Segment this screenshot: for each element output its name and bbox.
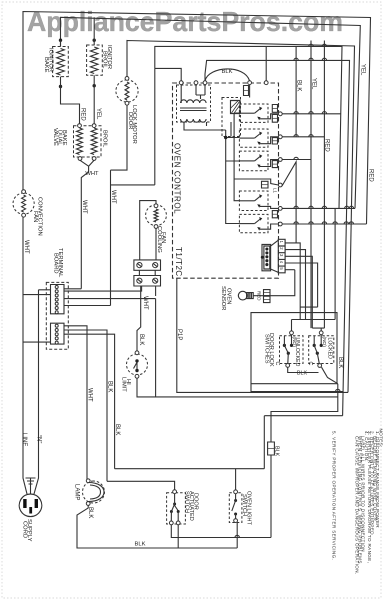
door actuated switch blades <box>171 494 178 522</box>
hop T6 e <box>344 222 348 224</box>
svg-text:LOCKED: LOCKED <box>327 338 333 360</box>
hop T5 c <box>322 206 326 208</box>
convection fan winding <box>22 195 26 212</box>
wire BLK stub right <box>295 46 297 136</box>
TB2 screw left <box>137 278 142 283</box>
wire door lock bottoms <box>288 367 338 384</box>
wire L1 left run <box>23 12 371 461</box>
wire broil ignitor top wire <box>93 17 95 45</box>
tag wire tag 271 <box>268 442 275 455</box>
lamp terminal top <box>86 479 90 483</box>
svg-text:AppliancePartsPros.com: AppliancePartsPros.com <box>27 6 343 37</box>
wire transformer BLK feed <box>205 60 350 415</box>
door actuated switch contact b <box>177 510 180 513</box>
wire oven light drop <box>235 469 237 490</box>
resistor bake ignitor element <box>57 49 65 76</box>
svg-text:T1/T2C: T1/T2C <box>174 247 183 277</box>
door actuated switch bottom terminal right <box>176 521 180 525</box>
door lock switch left box <box>280 336 304 364</box>
svg-text:BLK: BLK <box>222 69 233 75</box>
door lock switch left contact b <box>290 344 293 347</box>
oven light switch pole <box>234 499 237 502</box>
resistor broil ignitor box <box>87 45 103 75</box>
relay switch K4 blade arrowhead <box>259 154 262 158</box>
door actuated switch bottom terminal left <box>169 521 173 525</box>
door lock switch left top wire <box>291 320 293 346</box>
terminal board outline <box>46 282 68 349</box>
wire T6 run <box>282 223 366 225</box>
TB1 screw right <box>153 263 158 268</box>
tag L1tag hatch <box>262 184 269 186</box>
relay K1 coil rect <box>231 101 241 114</box>
TB2 screw slots <box>138 279 158 282</box>
connector P1 pin dot 2 <box>265 251 268 254</box>
terminal block TB2 <box>134 276 161 287</box>
relay switch K5 contact arrowhead <box>257 204 260 208</box>
terminal board lower pin 4 <box>55 337 58 340</box>
svg-text:C: C <box>274 362 280 366</box>
svg-text:YEL: YEL <box>360 64 366 76</box>
relay switch K2 out wire <box>260 114 279 119</box>
door lock motor circle <box>116 80 138 102</box>
box right terminal 6 <box>278 222 282 226</box>
door lock motor winding <box>125 82 129 100</box>
svg-text:RED: RED <box>368 169 374 182</box>
hop T2 b <box>309 135 313 137</box>
wire lamp bottom <box>77 505 237 548</box>
wire L1 into lower block <box>23 341 51 343</box>
node broil ignitor top junction <box>93 39 96 42</box>
hi limit circle <box>127 354 148 375</box>
terminal board lower pin 5 <box>55 341 58 344</box>
wire bake ignitor to valve <box>61 77 80 126</box>
tag wire tag 271 hatch <box>268 448 275 450</box>
relay switch K5 out wire <box>260 206 279 208</box>
terminal board lower pin 1 <box>55 324 58 327</box>
hi limit blade <box>134 362 138 369</box>
lamp circle <box>83 481 105 503</box>
transformer terminal 1 <box>179 81 183 85</box>
wire hi limit bottom <box>137 378 338 397</box>
cooling fan terminal bottom <box>154 225 158 229</box>
terminal board upper pin 5 <box>55 302 58 305</box>
door lock switch left top terminal <box>290 331 294 335</box>
ground stem <box>30 478 32 494</box>
valve terminal top right <box>92 124 96 128</box>
wire T1 run <box>282 113 341 115</box>
valve box <box>74 126 102 157</box>
door lock switches outer box <box>251 313 337 384</box>
relay switch K4 contact arrowhead <box>257 164 260 168</box>
wire lower pin to lamp <box>64 326 87 480</box>
hop T5 e <box>349 206 353 208</box>
wire pin3 nest <box>285 256 312 328</box>
tag CB <box>272 138 277 144</box>
wire T1C feed <box>155 46 342 208</box>
terminal board lower pin 3 <box>55 333 58 336</box>
svg-text:5. VERIFY PROPER OPERATION AFT: 5. VERIFY PROPER OPERATION AFTER SERVICI… <box>332 431 337 560</box>
wire T2 vertical RED <box>323 41 325 329</box>
wire T4 L1 diag <box>282 162 296 243</box>
door actuated switch pole <box>173 503 176 506</box>
wire pin5 nest <box>285 269 295 271</box>
transformer T1 box <box>177 85 211 122</box>
door lock motor terminal bottom <box>125 101 129 105</box>
hop T1 a <box>294 112 298 114</box>
wire P1P <box>177 278 348 392</box>
relay switch K4 out wire <box>260 160 279 167</box>
wire door lock motor top run <box>127 41 355 393</box>
relay switch K3 out wire <box>260 137 279 144</box>
svg-text:LINE: LINE <box>21 433 27 446</box>
svg-text:SWITCH: SWITCH <box>184 491 190 513</box>
wire pin2 nest <box>285 250 305 320</box>
wire pin4 nest <box>285 263 318 307</box>
hi limit contact upper <box>135 359 138 362</box>
box right terminal 5 <box>278 207 282 211</box>
transformer terminal 3 <box>203 81 207 85</box>
hop BLK feed a <box>294 58 298 60</box>
svg-text:“N”: “N” <box>35 435 41 443</box>
oven sensor body <box>247 293 254 299</box>
hop T2 a <box>294 135 298 137</box>
tag BA <box>272 211 277 218</box>
door lock switch right blade <box>314 336 319 364</box>
svg-text:LAMP: LAMP <box>74 484 80 500</box>
oven light switch contact <box>234 513 237 516</box>
relay K1 box <box>222 98 241 137</box>
TB1 screw slots <box>138 264 158 267</box>
oven light switch box <box>229 493 242 523</box>
bake ignitor wire <box>60 40 62 46</box>
svg-text:BLK: BLK <box>135 542 146 548</box>
terminal board upper pin 1 <box>55 286 58 289</box>
tag L1tag <box>262 181 269 188</box>
door lock switch right contact b <box>320 344 323 347</box>
tag BRO hatch <box>272 163 277 165</box>
svg-text:BLK: BLK <box>297 371 308 377</box>
relay switch K2 blade arrowhead <box>259 107 262 111</box>
wire ignitor feed top <box>61 17 361 208</box>
connector P1 key dot <box>261 256 264 259</box>
transformer stubs <box>181 85 205 103</box>
terminal block TB1 <box>134 260 161 270</box>
svg-text:SWITCHES: SWITCHES <box>263 334 269 364</box>
transformer core <box>180 108 207 111</box>
svg-text:BLK: BLK <box>337 357 343 368</box>
svg-text:YEL: YEL <box>95 108 101 120</box>
terminal board upper pin 6 <box>55 307 58 310</box>
relay switch K5 pole wire <box>239 200 254 202</box>
connector P1 pin dot 4 <box>265 259 268 262</box>
connector P1 pin dot 1 <box>265 247 268 250</box>
lamp terminal bottom <box>86 502 90 506</box>
wire T3 vertical <box>310 41 312 329</box>
relay switch K6 blade <box>255 219 261 224</box>
tag RED sensor 1 hatch <box>264 292 271 294</box>
door lock switch right contact a <box>313 344 316 347</box>
svg-text:RED: RED <box>257 291 262 301</box>
transformer secondary coil <box>181 119 207 122</box>
oven light switch blade <box>232 494 236 521</box>
supply plug prong center <box>29 507 32 514</box>
wire tag 271 below <box>270 455 272 538</box>
wire upper pin to motor return <box>64 305 111 307</box>
box right terminal 2 <box>278 135 282 139</box>
hop T1 b <box>309 112 313 114</box>
relay switch K5 blade arrowhead <box>259 194 262 198</box>
valve terminal bottom left <box>78 157 82 161</box>
wire valve merge <box>80 160 94 288</box>
cooling fan winding <box>154 209 158 222</box>
relay switch K6 contact arrowhead <box>257 227 260 231</box>
wire relay feeds left 2 <box>207 113 279 201</box>
door lock switch left contact a <box>283 344 286 347</box>
node K feed junction <box>224 136 227 139</box>
svg-text:UNLOCKED: UNLOCKED <box>294 338 300 367</box>
node broil ignitor bottom <box>93 84 96 87</box>
svg-text:P1P: P1P <box>176 329 182 340</box>
hop BLK feed c <box>322 58 326 60</box>
svg-text:WHT: WHT <box>110 190 116 204</box>
convection fan circle <box>13 193 34 214</box>
oven sensor bulb <box>238 291 247 300</box>
terminal board upper pin 2 <box>55 290 58 293</box>
svg-text:WHT: WHT <box>85 171 99 177</box>
svg-text:LOCK MOTOR: LOCK MOTOR <box>131 105 137 144</box>
hop T6 g <box>349 222 353 224</box>
supply plug circle <box>19 494 42 517</box>
svg-text:BLK: BLK <box>274 446 280 457</box>
wire cooling fan bottom <box>155 228 157 260</box>
hop T6 a <box>294 222 298 224</box>
svg-text:CAN CAUSE IMPROPER AND DANGERO: CAN CAUSE IMPROPER AND DANGEROUS OPERATI… <box>355 436 360 575</box>
tag RED sensor 1 <box>264 290 271 296</box>
relay switch K4 blade <box>255 156 261 161</box>
connector P1 pin housing <box>264 246 270 269</box>
relay switch K2 contact arrowhead <box>257 117 260 121</box>
door actuated switch contact a <box>170 510 173 513</box>
svg-text:CORD: CORD <box>22 521 28 538</box>
svg-text:WHT: WHT <box>23 240 29 254</box>
svg-text:IGNITOR: IGNITOR <box>48 48 54 72</box>
wire door lock motor to transformer <box>155 68 181 184</box>
relay switch K4 box <box>239 151 268 171</box>
resistor broil ignitor element <box>90 47 98 74</box>
tag MDL hatch <box>272 107 277 109</box>
relay switch K5 box <box>239 191 268 211</box>
wire door actuated feed <box>107 481 175 490</box>
supply plug prong left <box>23 499 26 508</box>
ground symbol <box>26 478 36 484</box>
relay switch K4 pole wire <box>239 160 254 162</box>
oven light switch bottom terminal <box>234 519 238 523</box>
relay K1 wires <box>184 85 250 137</box>
hi limit terminal bottom <box>135 374 139 378</box>
wire door actuated bottoms <box>171 525 271 548</box>
relay switch K3 pole wire <box>239 137 254 139</box>
svg-text:OVEN CONTROL: OVEN CONTROL <box>173 143 182 214</box>
svg-text:VALVE: VALVE <box>52 128 58 146</box>
oven light switch top terminal <box>234 490 238 494</box>
terminal board upper pin 4 <box>55 298 58 301</box>
door lock motor terminal top <box>125 77 129 81</box>
svg-text:BLK: BLK <box>106 381 112 392</box>
cooling fan circle <box>146 205 167 226</box>
relay switch K2 box <box>239 104 268 122</box>
wire TB2 left down <box>137 286 141 352</box>
wire T5 run <box>282 208 355 319</box>
wire box right down <box>271 384 338 442</box>
svg-text:BOARD: BOARD <box>53 253 59 274</box>
box top terminal 5 <box>264 81 268 85</box>
hop T1C b <box>322 44 326 46</box>
svg-text:BROIL: BROIL <box>102 130 108 148</box>
relay switch K6 blade arrowhead <box>259 217 262 221</box>
wire door lock motor return <box>111 105 155 305</box>
valve coil bake <box>77 128 83 155</box>
resistor bake ignitor box <box>53 47 69 77</box>
svg-text:SWITCH: SWITCH <box>241 494 247 516</box>
wire cooling fan top loop <box>140 201 156 260</box>
hop BLK feed b <box>309 58 313 60</box>
door lock switch right top wire <box>320 328 322 345</box>
relay switch K3 box <box>239 129 268 147</box>
door lock switch right box <box>309 336 334 364</box>
tag K1 wire tag hatch <box>244 90 249 92</box>
convection fan terminal top <box>22 190 26 194</box>
TB1 screw left <box>137 263 142 268</box>
relay switch K3 blade arrowhead <box>259 132 262 136</box>
svg-text:BLK: BLK <box>114 424 120 435</box>
lamp filament <box>88 483 104 502</box>
valve terminal bottom right <box>92 157 96 161</box>
convection fan terminal bottom <box>22 213 26 217</box>
node bake ignitor top junction <box>59 39 62 42</box>
svg-text:WHT: WHT <box>87 388 93 402</box>
terminal board lower pin 2 <box>55 329 58 332</box>
terminal board upper block <box>51 285 65 314</box>
supply plug prong right <box>35 499 38 508</box>
svg-text:BLK: BLK <box>138 334 144 345</box>
door actuated switch top terminal <box>173 490 177 494</box>
door lock switch right top terminal <box>319 331 323 335</box>
tag CB hatch <box>272 140 277 142</box>
oven sensor wire <box>253 270 295 296</box>
relay switch K3 contact arrowhead <box>257 142 260 146</box>
wire relay feeds left <box>226 130 240 224</box>
wire N into terminal board <box>39 290 51 460</box>
terminal board upper pin 7 <box>55 311 58 314</box>
wire upper pin to TB2 left <box>64 286 142 291</box>
svg-text:L1: L1 <box>273 188 278 194</box>
cooling fan terminal top <box>154 204 158 208</box>
hop T6 d <box>333 222 337 224</box>
relay switch K2 pole wire <box>239 112 254 114</box>
hi limit terminal top <box>135 351 139 355</box>
hop T1C a <box>309 44 313 46</box>
hop T5 d <box>345 206 349 208</box>
relay switch K6 pole wire <box>239 223 254 225</box>
hop nest c <box>336 389 340 391</box>
wire lower pin to door switch <box>64 330 107 481</box>
terminal board upper pin 3 <box>55 294 58 297</box>
hop T5 b <box>309 206 313 208</box>
connector P1 pin dot 3 <box>265 255 268 258</box>
wire upper pin to valve WHT <box>64 288 81 290</box>
relay K1 coil hatch <box>231 101 240 113</box>
relay switch K6 out wire <box>260 224 279 229</box>
svg-text:FAN: FAN <box>32 211 38 222</box>
hop T3 a <box>294 157 298 159</box>
wire BLK arc <box>205 69 250 81</box>
terminal board lower block <box>51 323 65 344</box>
door lock switch left pole <box>287 352 290 355</box>
hi limit contact lower <box>135 369 138 372</box>
tag BA hatch <box>272 213 277 215</box>
box right terminal 4 <box>278 183 282 187</box>
tag BRO <box>272 161 277 168</box>
wire oven light feed <box>115 468 265 470</box>
svg-text:LIMIT: LIMIT <box>121 377 127 392</box>
svg-text:RED: RED <box>80 108 86 121</box>
relay switch K6 box <box>239 214 268 232</box>
relay switch K3 blade <box>255 134 261 139</box>
door lock switch right pole <box>316 352 319 355</box>
wire lower pin to oven light switch <box>64 334 115 469</box>
transformer primary coil <box>181 100 207 103</box>
valve coil broil <box>91 128 97 155</box>
door lock switch left bottom terminal <box>286 364 290 368</box>
svg-text:C: C <box>307 362 313 366</box>
wire big bottom nest <box>264 416 342 469</box>
oven control box <box>173 83 279 278</box>
svg-text:IGNITOR: IGNITOR <box>106 45 112 69</box>
tag DLB <box>272 115 277 123</box>
door lock switch left blade <box>284 336 288 364</box>
tag RED sensor 2 <box>264 296 271 302</box>
box right terminal 1 <box>278 112 282 116</box>
svg-text:WHT: WHT <box>81 200 87 214</box>
svg-text:FAN: FAN <box>160 232 166 243</box>
relay switch K5 blade <box>255 196 261 201</box>
hop T5 a <box>294 206 298 208</box>
door actuated switch box <box>167 493 186 524</box>
tag DLB hatch <box>272 117 277 119</box>
svg-text:(NO): (NO) <box>321 337 327 348</box>
valve terminal top left <box>78 124 82 128</box>
connector P1 shell <box>262 240 278 272</box>
tag MDL <box>272 105 277 113</box>
wire L1 into terminal board <box>23 294 51 296</box>
box top terminal 4 <box>248 81 252 85</box>
wire broil ignitor to valve <box>93 75 95 125</box>
svg-text:SENSOR: SENSOR <box>220 286 226 310</box>
wire box bottom left down <box>251 384 343 392</box>
box right terminal 3 <box>278 158 282 162</box>
TB2 screw right <box>153 278 158 283</box>
wire pin1 nest <box>285 243 300 320</box>
wire T3 run <box>282 159 311 161</box>
wire N to plug <box>34 460 39 494</box>
hop T6 b <box>309 222 313 224</box>
node bake ignitor bottom <box>59 85 62 88</box>
wire TB2 right down <box>155 286 157 296</box>
tag K1 wire tag <box>244 86 249 96</box>
relay switch K2 blade <box>255 109 261 114</box>
hop bottom wire <box>235 535 239 537</box>
wire L1 to plug <box>23 460 27 494</box>
